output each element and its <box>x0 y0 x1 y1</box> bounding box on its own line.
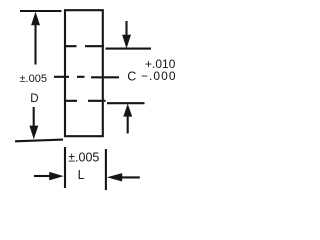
svg-text:L: L <box>78 168 85 182</box>
svg-text:±.005: ±.005 <box>20 73 47 85</box>
svg-text:−.000: −.000 <box>141 69 176 83</box>
svg-text:D: D <box>30 93 38 105</box>
svg-text:C: C <box>127 70 136 84</box>
svg-text:±.005: ±.005 <box>68 151 99 165</box>
